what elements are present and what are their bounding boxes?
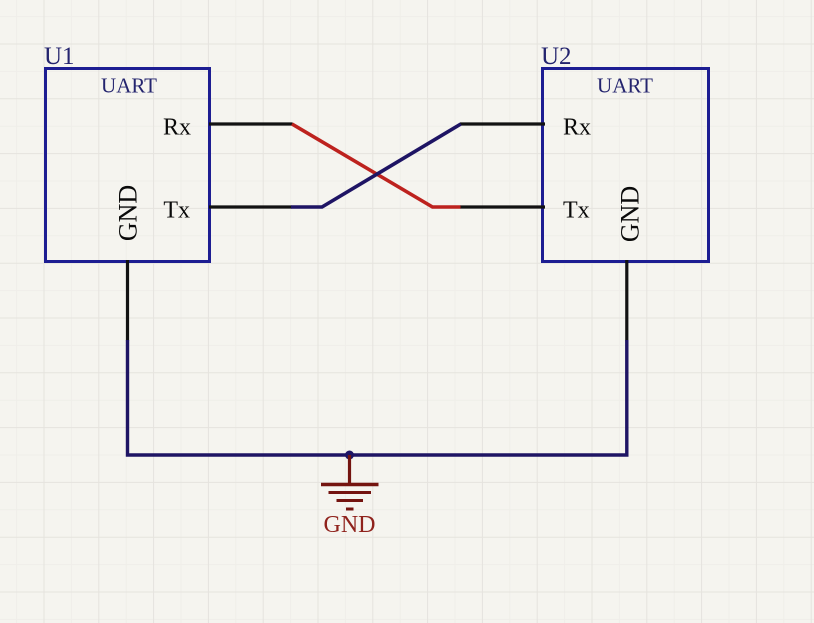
pin U1.Rx stub [209,122,293,125]
ground symbol bar 2 [329,491,372,494]
pin U2.Rx stub [460,122,545,125]
ground symbol stub [348,455,351,483]
svg-text:Rx: Rx [563,115,591,141]
svg-text:U2: U2 [541,43,572,70]
pin U1.GND stub [126,260,129,341]
component U1 (UART box) [46,69,210,262]
svg-text:Tx: Tx [563,198,590,224]
wire GND bus [128,340,627,455]
svg-text:GND: GND [114,185,143,241]
svg-text:U1: U1 [44,43,75,70]
svg-text:GND: GND [616,186,645,242]
ground symbol bar 4 [346,508,354,511]
component U2 (UART box) [543,69,709,262]
ground symbol bar 3 [337,499,364,502]
svg-text:Tx: Tx [163,198,190,224]
junction dot [345,451,354,460]
svg-text:Rx: Rx [163,115,191,141]
pin U2.GND stub [625,260,628,341]
pin U2.Tx stub [460,205,545,208]
pin U1.Tx stub [209,205,292,208]
wire U1.Tx to U2.Rx (blue crossover) [291,124,461,207]
ground symbol bar 1 [321,483,379,486]
svg-text:GND: GND [324,512,376,538]
wire U1.Rx to U2.Tx (red crossover) [292,124,461,207]
svg-text:UART: UART [597,74,653,98]
svg-text:UART: UART [101,74,157,98]
